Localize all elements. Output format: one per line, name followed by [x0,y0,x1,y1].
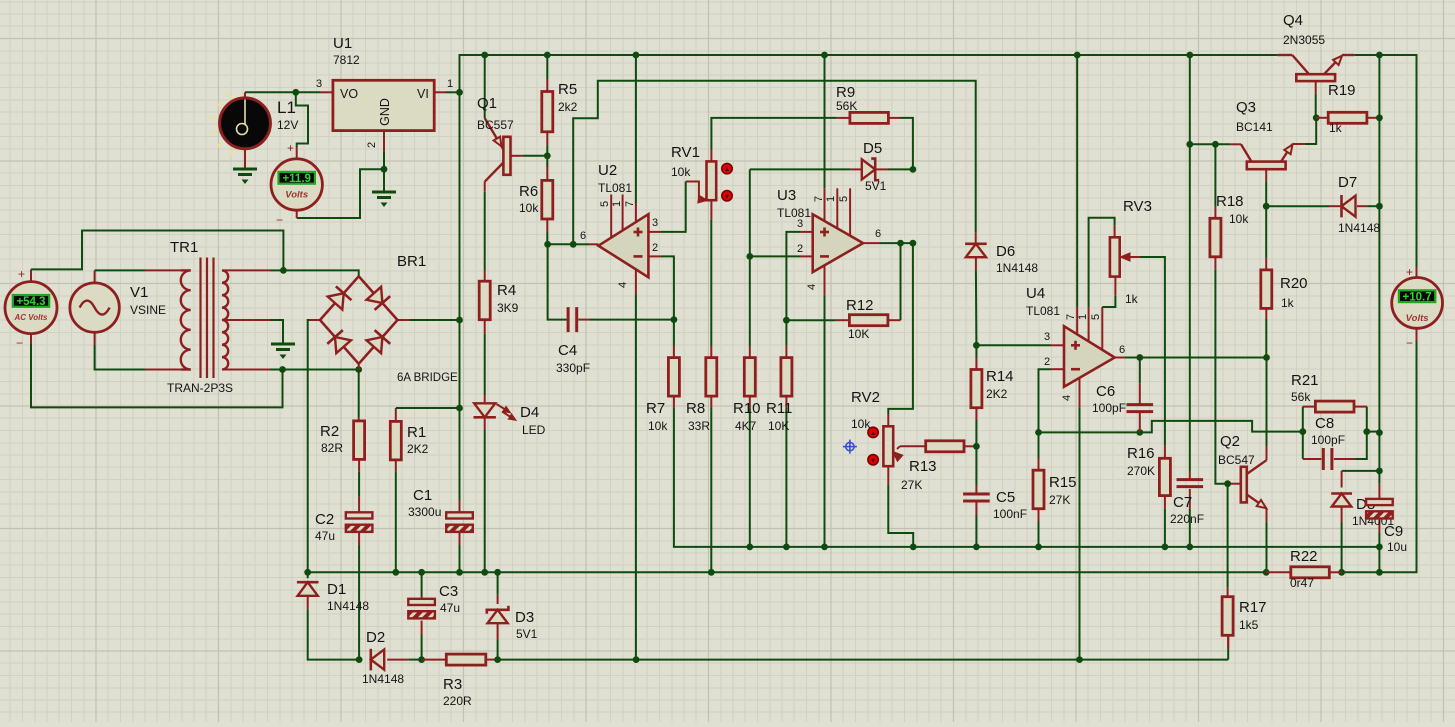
diode D6 [966,244,986,257]
svg-text:27K: 27K [901,478,922,492]
svg-text:3: 3 [316,78,322,90]
svg-text:5: 5 [1090,314,1102,320]
wire Q3 emitter riser [1293,143,1305,145]
capacitor C1 [446,512,473,518]
wire R21 right riser [1354,406,1367,408]
wire R6 top [546,156,548,167]
wire node to lamp L1 [245,91,296,93]
wire secondary tap to ground [222,319,271,321]
svg-text:TL081: TL081 [1026,304,1060,318]
wire C6 bottom stub [1139,413,1141,433]
voltmeter AC secondary [5,282,57,334]
wire Q1 base [511,155,523,157]
resistor R14 [971,370,982,408]
svg-text:56k: 56k [1291,390,1311,404]
junction R21 C8 left [1299,428,1306,435]
wire D7 line left [1266,205,1329,207]
svg-text:Q2: Q2 [1220,433,1240,450]
wire RV2 bottom [887,466,889,485]
junction mid rail C1 [456,569,463,576]
wire U3 pin5 stub [849,188,851,235]
resistor R21 [1315,401,1354,412]
wire RV2 wiper to R13 [900,445,926,447]
svg-text:C9: C9 [1384,523,1403,540]
wire main vertical rail x459 [459,92,461,500]
svg-text:5: 5 [599,201,611,207]
wire node to C5 [975,446,977,485]
svg-text:C8: C8 [1315,415,1334,432]
wire U4 pin2 loop [1051,368,1064,370]
wire U4 output [1115,357,1125,359]
svg-text:1N4148: 1N4148 [362,672,404,686]
svg-text:C5: C5 [996,489,1015,506]
svg-text:−: − [16,336,23,350]
wire U4 pin7 supply [1076,307,1078,334]
svg-text:12V: 12V [277,118,298,132]
wire R11 bottom [785,396,787,408]
wire U1 pin1 to main vertical [434,91,446,93]
svg-text:5V1: 5V1 [516,627,538,641]
wire C5 bottom [975,502,977,515]
svg-text:R8: R8 [686,400,705,417]
junction secondary bottom [279,366,286,373]
wire lamp to ground [244,149,246,169]
wire Q2 emitter down [1266,508,1268,522]
transistor Q3 BC141 [1247,162,1286,170]
svg-text:220nF: 220nF [1170,512,1204,526]
svg-text:R6: R6 [519,183,538,200]
wire R2 to C2 [358,459,360,471]
resistor R5 [542,92,553,132]
wire R13 right [964,445,976,447]
wire U1 pin2 down [383,131,385,152]
svg-text:Q3: Q3 [1236,99,1256,116]
wire R6 bottom to U2 out node [546,219,548,232]
svg-text:+: + [287,141,294,155]
junction low rail C7 [1186,544,1193,551]
wire Q3 base down [1265,169,1267,181]
svg-text:330pF: 330pF [556,361,590,375]
resistor R17 [1222,597,1233,636]
svg-text:7: 7 [813,196,825,202]
junction rail R5 [544,52,551,59]
junction Q1 base node [544,152,551,159]
diode D3 zener [488,610,508,623]
resistor R18 [1210,218,1221,256]
svg-text:R1: R1 [407,424,426,441]
svg-text:R3: R3 [443,676,462,693]
svg-text:LED: LED [522,423,546,437]
svg-text:▲: ▲ [870,430,876,437]
wire R11 top [785,320,787,346]
junction low rail R11 [783,544,790,551]
svg-text:TR1: TR1 [170,239,198,256]
svg-text:1N4148: 1N4148 [1338,221,1380,235]
wire R20 column [1265,206,1267,258]
capacitor C9 [1366,499,1393,505]
diode D8 [1332,494,1352,507]
wire U4 pin1 to RV3 top [1088,307,1090,341]
svg-text:TL081: TL081 [598,181,632,195]
wire secondary top pin [222,269,271,271]
svg-text:BC141: BC141 [1236,120,1273,134]
wire RV3 wiper [1122,256,1140,258]
svg-text:6: 6 [875,228,881,240]
wire bridge right arm [398,319,411,321]
wire U2 output [548,243,574,245]
svg-text:+: + [1406,265,1413,279]
svg-text:VI: VI [417,87,429,101]
junction U4 pin3 node [973,342,980,349]
ground lamp L1 [233,168,257,171]
wire U2 pin3 to RV1 wiper [648,231,661,233]
svg-text:R4: R4 [497,282,516,299]
wire Q4 emitter lead [1342,54,1354,56]
wire right branch x1379 [1378,55,1380,433]
wire U3 output [863,242,880,244]
wire D8 branch [1342,470,1380,472]
resistor R6 [542,180,553,219]
resistor R1 [390,421,401,460]
capacitor C5 [963,493,990,496]
svg-text:BC547: BC547 [1218,453,1255,467]
junction low rail C5 [973,544,980,551]
junction D5 cathode [910,166,917,173]
svg-text:47u: 47u [440,601,460,615]
pot RV1 10k [707,161,717,200]
svg-text:1k: 1k [1281,296,1295,310]
resistor R12 [849,315,888,326]
junction R13 R14 node [973,443,980,450]
wire C6 net jog to R21 [1140,421,1303,433]
svg-text:BC557: BC557 [477,118,514,132]
junction bridge bottom node [355,366,362,373]
wire Q2 collector riser [1266,358,1268,447]
svg-text:4: 4 [617,282,629,288]
wire U2 pin5 stub [610,195,612,238]
svg-text:7: 7 [1065,314,1077,320]
transistor Q2 BC547 [1241,467,1247,503]
wire C6 top [1139,358,1141,384]
wire R8 bottom to mid rail [710,396,712,408]
wire C9 column [1378,471,1380,484]
junction out rail C9 [1376,569,1383,576]
svg-text:C1: C1 [413,487,432,504]
wire C8 right [1334,458,1355,460]
diode D4 LED [474,403,495,417]
junction Q2 emitter rail [1263,569,1270,576]
svg-text:R19: R19 [1328,82,1356,99]
wire U3 pin1 stub [836,188,838,228]
svg-text:L1: L1 [277,98,296,117]
wire R16 bottom [1164,496,1166,509]
svg-text:+: + [18,267,25,281]
wire mid rail y572 [308,571,1266,573]
junction R7 top [671,316,678,323]
junction C6 bottom [1136,429,1143,436]
wire R10 top [749,256,751,346]
svg-text:3300u: 3300u [408,505,441,519]
svg-text:RV1: RV1 [671,144,700,161]
wire R7 bottom to low rail [673,396,675,408]
svg-text:4K7: 4K7 [735,419,757,433]
svg-text:+54.3: +54.3 [16,296,45,308]
resistor R19 [1328,112,1367,123]
svg-text:Volts: Volts [1406,313,1429,324]
wire bottom rail long [498,659,1229,661]
wire R14 top [975,345,977,358]
junction U2 out node A [544,241,551,248]
svg-text:10K: 10K [848,327,869,341]
junction supply branch Q3 [1186,141,1193,148]
capacitor C4 [567,307,570,332]
svg-text:R21: R21 [1291,372,1319,389]
svg-text:10k: 10k [1229,212,1249,226]
wire U3 pin3 to R12 left [800,231,813,233]
wire R15 column [1038,432,1040,458]
svg-text:V1: V1 [130,284,148,301]
svg-text:10k: 10k [648,419,668,433]
capacitor C8 [1322,448,1325,470]
transformer TR1 [199,258,201,379]
junction D7 anode [1376,203,1383,210]
transistor Q4 2N3055 [1296,74,1335,81]
diode D5 zener [862,159,875,179]
resistor R15 [1033,470,1044,509]
svg-text:2: 2 [1044,356,1050,368]
svg-text:R17: R17 [1239,599,1267,616]
diode D1 [298,582,318,596]
wire R12 right riser [888,319,900,321]
junction R21 right [1363,428,1370,435]
wire U3 pin4 down [824,265,826,295]
svg-text:220R: 220R [443,694,472,708]
svg-text:R10: R10 [733,400,761,417]
wire D3 column [497,572,499,595]
wire U3 pin2 stub [800,255,813,257]
wire RV1 wiper hook [686,182,699,201]
wire Q3 collector line [1230,143,1241,145]
wire R22 right to output [1329,571,1341,573]
svg-text:VSINE: VSINE [130,303,166,317]
junction bridge right [456,317,463,324]
svg-text:6: 6 [1119,344,1125,356]
junction mid rail C3 [418,569,425,576]
junction mid rail R8 [708,569,715,576]
svg-text:U1: U1 [333,35,352,52]
junction low rail R16 [1162,544,1169,551]
resistor R2 [354,421,365,460]
capacitor C2 [346,512,373,518]
resistor R13 [926,441,964,452]
wire supply branch x1190 [1189,55,1191,144]
svg-text:2: 2 [366,142,378,148]
junction U1 pin2 ground node [381,166,388,173]
wire R7 top stub [673,320,675,346]
svg-text:R13: R13 [909,458,937,475]
wire branch to D8 C9 node [1378,433,1380,471]
svg-text:10u: 10u [1387,540,1407,554]
svg-text:7: 7 [624,201,636,207]
wire D1 vertical [307,572,309,578]
wire R14 bottom to node [975,408,977,420]
junction C8 right node [1376,429,1383,436]
junction secondary top [280,267,287,274]
svg-text:1: 1 [825,196,837,202]
wire Q4 base down [1315,81,1317,94]
svg-text:R12: R12 [846,297,874,314]
wire D8 anode down [1341,506,1343,523]
wire D4 to mid rail [484,418,486,430]
svg-text:R22: R22 [1290,548,1318,565]
junction bottom rail D3 [494,656,501,663]
wire C9 to out rail [1378,547,1380,572]
junction rail right branch [1376,52,1383,59]
wire U2 pin2 loop [648,255,661,257]
wire C1 bottom to mid rail [459,532,461,545]
svg-text:C4: C4 [558,342,577,359]
wire U4 out line to Q2 collector node [1140,357,1267,359]
junction mid rail D1 [304,569,311,576]
svg-text:D1: D1 [327,581,346,598]
junction rail U2 pin7 [633,52,640,59]
resistor R9 [850,112,889,123]
wire node to voltmeter plus [296,92,308,147]
wire R4 to D4 [484,320,486,334]
wire secondary bottom to bridge bottom [283,369,359,371]
regulator U1 7812 [333,80,434,130]
junction mid rail D4 [481,569,488,576]
capacitor C3 [408,599,435,605]
svg-text:1k5: 1k5 [1239,618,1259,632]
svg-text:1k: 1k [1125,292,1139,306]
svg-text:47u: 47u [315,529,335,543]
svg-text:10K: 10K [768,419,789,433]
junction U3 out D5 [910,240,917,247]
wire secondary bottom pin [222,369,271,371]
svg-text:3: 3 [1044,331,1050,343]
svg-text:5V1: 5V1 [865,179,887,193]
diode D7 [1342,196,1356,217]
svg-text:2K2: 2K2 [407,442,429,456]
svg-text:0r47: 0r47 [1290,576,1314,590]
svg-text:82R: 82R [321,441,343,455]
svg-text:1: 1 [611,201,623,207]
op-amp U4 TL081 [1064,326,1115,387]
wire Q1 collector to R4 [484,182,486,192]
svg-text:Q1: Q1 [477,95,497,112]
svg-text:6A BRIDGE: 6A BRIDGE [397,372,458,384]
wire U1 pin3 to node [320,91,333,93]
wire D5 cathode stub [876,168,888,170]
svg-text:3: 3 [797,218,803,230]
bridge rectifier BR1 [320,276,359,320]
resistor R20 [1261,270,1272,309]
svg-text:1: 1 [1077,314,1089,320]
svg-text:−: − [1406,336,1413,350]
svg-text:6: 6 [580,230,586,242]
junction U1 pin1 [456,89,463,96]
wire R12 left pin [836,319,850,321]
svg-text:D2: D2 [366,629,385,646]
svg-text:Q4: Q4 [1283,12,1303,29]
wire R9 right [888,117,900,119]
resistor R4 [479,281,490,320]
junction low rail R10 [746,544,753,551]
svg-text:+10.7: +10.7 [1403,291,1432,303]
junction mid rail D3 [494,569,501,576]
wire C4 right to R7 node [578,319,590,321]
wire U4 pin4 down [1079,378,1081,408]
junction bottom rail U2 pin4 [633,656,640,663]
junction D8 C9 node [1376,468,1383,475]
junction U3 out R12 [897,240,904,247]
svg-text:100nF: 100nF [993,507,1027,521]
resistor R3 [446,654,486,665]
svg-text:1N4148: 1N4148 [327,599,369,613]
svg-text:AC Volts: AC Volts [13,313,48,322]
wire Q4 collector lead [1278,54,1293,56]
resistor R7 [668,358,679,397]
junction rail U3 pin7 [821,52,828,59]
svg-text:5: 5 [838,196,850,202]
resistor R16 [1159,458,1170,495]
svg-text:R15: R15 [1049,474,1077,491]
svg-text:1k: 1k [1329,121,1343,135]
wire C7 bottom [1189,489,1191,509]
wire R17 riser [1227,484,1229,588]
pot RV3 1k [1110,237,1120,276]
pot RV2 10k [883,426,893,466]
wire bridge left arm down [310,319,321,321]
svg-text:27K: 27K [1049,493,1070,507]
wire AC voltmeter minus [30,334,32,344]
wire U2 pin1 stub [622,195,624,231]
wire C4 left [548,244,567,319]
junction R12 left [783,317,790,324]
wire U2 pin4 down [635,269,637,294]
wire R17 bottom [1227,635,1229,648]
svg-text:D6: D6 [996,243,1015,260]
svg-text:TRAN-2P3S: TRAN-2P3S [167,381,233,395]
svg-text:R2: R2 [320,423,339,440]
svg-text:2k2: 2k2 [558,100,578,114]
svg-text:C7: C7 [1173,494,1192,511]
svg-text:D4: D4 [520,404,539,421]
junction low rail U3 pin4 [821,544,828,551]
wire V1 to primary top [94,270,96,283]
junction low rail RV2 [910,544,917,551]
svg-text:R7: R7 [646,400,665,417]
svg-text:D7: D7 [1338,174,1357,191]
svg-text:BR1: BR1 [397,253,426,270]
wire Q1 emitter to rail [484,55,486,118]
junction R20 bottom Q2 collector [1263,354,1270,361]
wire bottom rail to R17 [1227,648,1229,659]
ground U1 pin2 [372,191,396,194]
junction low rail C9 [1376,544,1383,551]
capacitor C6 [1127,403,1154,406]
diode D2 [371,650,384,670]
junction R19 right [1376,114,1383,121]
svg-text:270K: 270K [1127,464,1155,478]
svg-text:10k: 10k [519,201,539,215]
wire R19 right pin [1367,117,1380,119]
ground transformer tap [271,343,295,346]
resistor R22 [1291,567,1330,578]
svg-text:▲: ▲ [724,166,730,173]
svg-text:R11: R11 [766,400,792,417]
